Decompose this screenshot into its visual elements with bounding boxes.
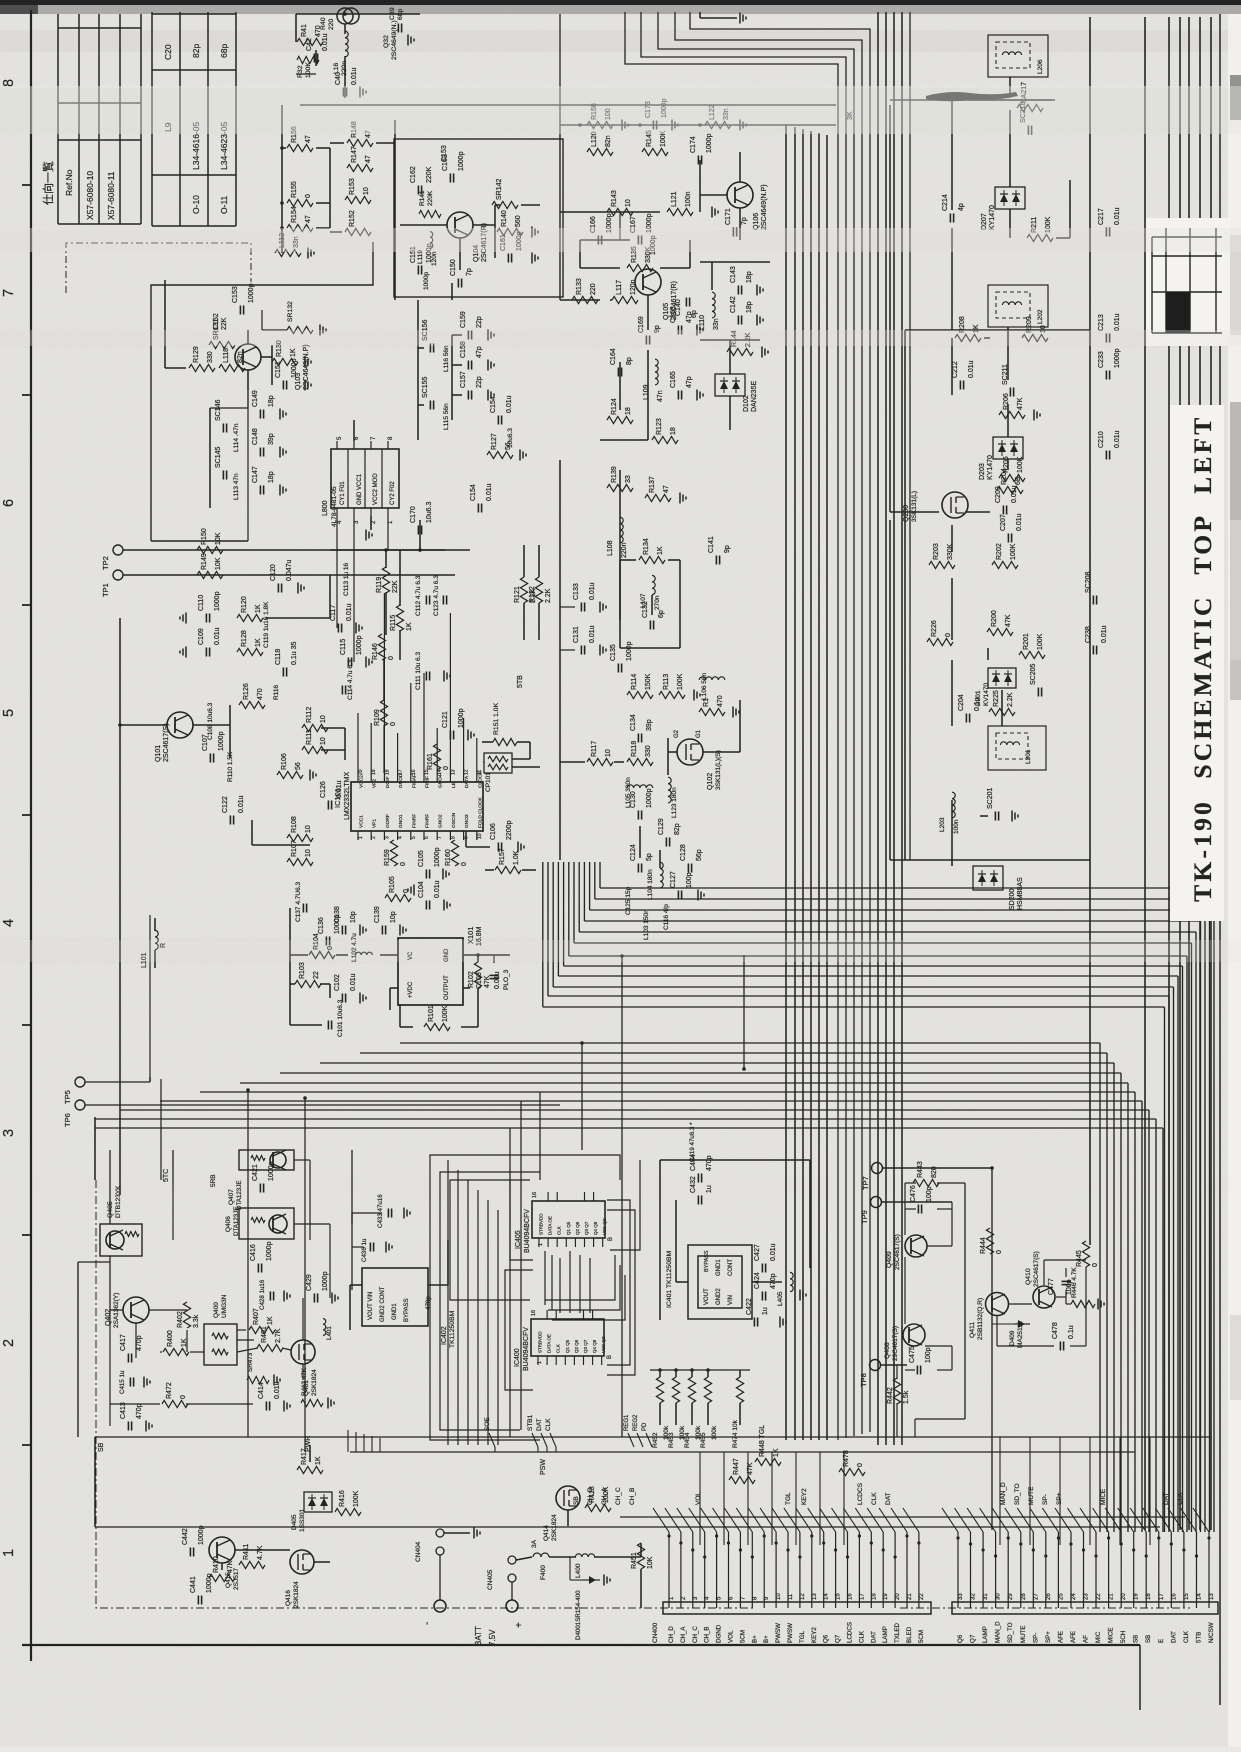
label PSW <box>540 1459 547 1475</box>
svg-text:1000p: 1000p <box>1114 348 1121 368</box>
svg-text:L116 56n: L116 56n <box>443 345 450 372</box>
svg-text:KY1470: KY1470 <box>989 205 996 230</box>
parts variant table grid <box>152 12 236 226</box>
svg-text:1000p: 1000p <box>626 641 633 661</box>
capacitor C171 7p <box>725 208 748 236</box>
svg-text:DTB123YK: DTB123YK <box>115 1185 122 1218</box>
capacitor C214 4p <box>942 194 965 222</box>
resistor R154 47 <box>287 206 313 231</box>
svg-text:PWSW: PWSW <box>787 1623 794 1643</box>
capacitor C422 1u <box>746 1298 769 1326</box>
svg-text:G2: G2 <box>674 729 680 738</box>
svg-text:R106: R106 <box>281 753 288 770</box>
svg-text:100n: 100n <box>685 191 692 207</box>
svg-text:DATA OE: DATA OE <box>547 1334 552 1353</box>
svg-text:C157: C157 <box>460 371 467 388</box>
bus nested corner wires left <box>625 12 870 1440</box>
svg-text:1K: 1K <box>773 1448 780 1457</box>
svg-text:R152: R152 <box>349 210 356 227</box>
svg-text:R226: R226 <box>931 620 938 637</box>
svg-text:C103: C103 <box>476 972 483 989</box>
wire c433 c436 <box>352 1194 410 1290</box>
svg-text:C442: C442 <box>182 1528 189 1545</box>
ground L121 <box>712 207 718 218</box>
svg-text:1: 1 <box>358 836 364 839</box>
transistor Q410 2SC4617(S) <box>1025 1251 1055 1308</box>
svg-text:R127: R127 <box>491 433 498 450</box>
capacitor C476 100p <box>910 1185 933 1213</box>
capacitor C120 0.047u <box>270 559 293 592</box>
svg-text:100K: 100K <box>1010 543 1017 560</box>
svg-text:IC400: IC400 <box>514 1348 521 1367</box>
svg-text:11: 11 <box>788 1593 794 1600</box>
wire conn row 1517 <box>620 1516 1185 1518</box>
resistor R143 10 <box>607 190 633 215</box>
svg-text:470: 470 <box>717 695 724 707</box>
svg-text:0.01u: 0.01u <box>1114 313 1121 331</box>
resistor R134 1K <box>639 538 665 563</box>
svg-text:OSCIN: OSCIN <box>451 812 457 828</box>
coil L109 47n <box>643 359 664 402</box>
svg-text:KV1470: KV1470 <box>983 682 990 706</box>
label 1000p-c151 <box>423 272 430 290</box>
svg-text:R455: R455 <box>700 1432 707 1448</box>
coil L400 <box>575 1554 595 1578</box>
capacitor C143 18p <box>730 266 753 294</box>
svg-text:DOIF: DOIF <box>385 776 391 788</box>
wire feed row <box>300 14 836 105</box>
table text L34-4616-05 <box>191 122 201 170</box>
coil L16 220n <box>333 31 348 76</box>
resistor R111 10 <box>302 729 328 753</box>
diode D405 1SS301 <box>291 1492 332 1532</box>
svg-text:C415 1u: C415 1u <box>119 1370 126 1394</box>
svg-text:Q400: Q400 <box>213 1302 220 1318</box>
svg-text:DTA123JE: DTA123JE <box>236 1181 243 1210</box>
svg-text:SP-: SP- <box>1032 1633 1039 1643</box>
resistor R117 10 <box>587 741 613 766</box>
svg-text:Q101: Q101 <box>155 745 162 762</box>
svg-text:C134: C134 <box>630 714 637 731</box>
svg-text:R157: R157 <box>499 848 506 865</box>
svg-text:100p: 100p <box>686 872 693 888</box>
svg-text:1.0K: 1.0K <box>513 850 520 865</box>
resistor bank R452-R455 100k <box>652 1368 718 1448</box>
resistor R103 22 <box>295 962 321 987</box>
svg-text:2.2K: 2.2K <box>1007 692 1014 707</box>
svg-text:Q410: Q410 <box>1025 1268 1032 1285</box>
resistor R135 330K <box>627 246 653 271</box>
wire q103 <box>165 280 272 390</box>
svg-text:47n: 47n <box>657 390 664 402</box>
svg-text:C212: C212 <box>952 361 959 378</box>
svg-text:R105: R105 <box>389 876 396 893</box>
svg-text:1000p: 1000p <box>266 1241 273 1261</box>
svg-text:C39: C39 <box>389 7 396 20</box>
svg-text:C422: C422 <box>746 1298 753 1315</box>
svg-text:C118: C118 <box>275 649 282 665</box>
svg-text:R150: R150 <box>201 528 208 545</box>
svg-text:R203: R203 <box>933 543 940 560</box>
svg-text:R400: R400 <box>167 1330 174 1347</box>
svg-text:VSS QS: VSS QS <box>601 1336 606 1353</box>
coil L101 <box>141 918 167 968</box>
svg-text:SC205: SC205 <box>1030 663 1037 685</box>
svg-text:Q416: Q416 <box>285 1590 292 1606</box>
svg-text:18p: 18p <box>268 471 275 483</box>
capacitor C134 39p <box>630 714 653 742</box>
svg-text:2SC4649(N.P): 2SC4649(N.P) <box>303 344 310 390</box>
svg-text:30: 30 <box>996 1593 1002 1600</box>
ground R106 <box>310 770 316 781</box>
svg-text:MICE: MICE <box>1100 1488 1107 1505</box>
svg-text:R161: R161 <box>427 753 434 770</box>
capacitor C42 0.01u <box>306 33 329 62</box>
svg-text:SB: SB <box>98 1442 105 1452</box>
svg-text:C101 10u6.3: C101 10u6.3 <box>337 999 344 1037</box>
svg-text:C164: C164 <box>610 348 617 365</box>
connector CN404 <box>415 1528 480 1601</box>
svg-text:Ref.No: Ref.No <box>64 169 74 196</box>
wire bus to shift registers <box>448 1160 498 1445</box>
svg-text:R445: R445 <box>1076 1250 1083 1267</box>
svg-text:1000p: 1000p <box>218 731 225 751</box>
ground C105 <box>443 869 449 880</box>
ground C115 <box>366 657 372 668</box>
capacitor C174 1000p <box>690 133 713 164</box>
svg-text:VOL: VOL <box>728 1630 735 1643</box>
test point TP5 <box>63 1077 150 1104</box>
capacitor C141 9p <box>708 536 731 564</box>
ground C168 <box>697 325 703 336</box>
wire pll mid <box>266 520 445 773</box>
svg-text:CLK: CLK <box>1183 1630 1190 1643</box>
svg-text:1: 1 <box>1 1549 17 1557</box>
svg-text:C427: C427 <box>754 1244 761 1261</box>
svg-text:10: 10 <box>305 849 312 857</box>
svg-text:5TB: 5TB <box>517 675 524 688</box>
label C125 15p <box>625 886 632 915</box>
label C116 47p <box>663 904 670 930</box>
capacitor C103 0.01u <box>476 971 501 989</box>
svg-text:C170: C170 <box>410 506 417 523</box>
svg-text:R126: R126 <box>243 683 250 700</box>
svg-text:C111 10u 6.3: C111 10u 6.3 <box>415 652 422 690</box>
svg-text:仕向一覧: 仕向一覧 <box>41 161 55 205</box>
transistor Q411 2SB1132(Q.R) <box>969 1293 1009 1341</box>
coil L401 <box>323 1319 333 1340</box>
svg-text:VCC2 MOD: VCC2 MOD <box>373 473 379 505</box>
connector CN400 pins 33-13 <box>952 1532 1218 1643</box>
coil L106 56n <box>699 673 725 700</box>
svg-text:SB: SB <box>1133 1635 1140 1643</box>
svg-text:56: 56 <box>295 762 302 770</box>
svg-text:R160: R160 <box>445 849 452 866</box>
svg-text:R1: R1 <box>703 698 710 707</box>
svg-text:31: 31 <box>983 1593 989 1600</box>
wire ic402 <box>350 1240 448 1330</box>
capacitor C211 <box>1002 364 1014 396</box>
svg-text:470p: 470p <box>770 1273 777 1289</box>
scan fade band 1 <box>0 86 1241 134</box>
svg-text:TGL: TGL <box>785 1492 792 1505</box>
svg-text:1000p: 1000p <box>434 847 441 867</box>
ground C111 <box>444 671 450 682</box>
svg-text:L113 47n: L113 47n <box>233 473 240 500</box>
svg-text:O-11: O-11 <box>219 195 229 214</box>
svg-text:C123 4.7u 6.3: C123 4.7u 6.3 <box>433 575 440 616</box>
svg-text:C117: C117 <box>330 605 337 621</box>
svg-text:L106 56n: L106 56n <box>701 673 708 700</box>
svg-text:100n: 100n <box>953 819 960 834</box>
ground R137 <box>680 493 686 504</box>
svg-text:R447: R447 <box>733 1458 740 1475</box>
svg-text:L401: L401 <box>326 1326 333 1340</box>
capacitor C170 10u6.3 <box>410 501 433 534</box>
svg-text:R41: R41 <box>301 24 308 37</box>
wire conn row 1527 <box>95 1526 1160 1528</box>
svg-text:17: 17 <box>398 769 404 775</box>
ground C127 <box>698 890 704 901</box>
svg-text:IC401 TK11250BM: IC401 TK11250BM <box>666 1250 673 1308</box>
capacitor C146 47n <box>215 399 227 432</box>
svg-text:-: - <box>422 1622 433 1625</box>
svg-text:CY1 F01: CY1 F01 <box>340 481 346 505</box>
resistor R101 100K <box>424 1005 450 1030</box>
svg-text:9p: 9p <box>724 545 731 553</box>
svg-text:Q402: Q402 <box>105 1309 112 1326</box>
svg-text:220K: 220K <box>427 190 434 206</box>
svg-text:R448 TGL: R448 TGL <box>759 1425 766 1457</box>
label C153b <box>441 145 448 162</box>
svg-text:24: 24 <box>1071 1593 1077 1600</box>
scan fade band 4 <box>0 940 1241 962</box>
svg-text:15: 15 <box>836 1593 842 1600</box>
svg-text:Q106: Q106 <box>753 213 760 230</box>
svg-text:1000p: 1000p <box>356 635 363 655</box>
svg-text:L117: L117 <box>616 280 623 295</box>
resistor R140 560 <box>497 210 523 235</box>
svg-text:150K: 150K <box>645 673 652 690</box>
svg-text:47K: 47K <box>1017 397 1024 410</box>
label L116 56n <box>443 345 450 372</box>
svg-text:L405: L405 <box>777 1291 784 1306</box>
svg-text:SC201: SC201 <box>987 787 994 809</box>
svg-text:R411: R411 <box>243 1544 250 1560</box>
svg-text:TXLED: TXLED <box>894 1623 901 1643</box>
svg-text:R474 10k: R474 10k <box>732 1419 739 1448</box>
wire rf enclosure right <box>890 100 1090 860</box>
wire right vert 890b <box>889 520 891 860</box>
wire c171 <box>700 262 770 290</box>
transistor Q406 DTA123JE <box>225 1207 294 1239</box>
svg-text:0.01u: 0.01u <box>1114 207 1121 225</box>
svg-text:22K: 22K <box>221 317 228 330</box>
transistor Q402 2SA1362(Y) <box>105 1293 149 1328</box>
capacitor C441 1000p <box>190 1573 213 1604</box>
svg-text:C135: C135 <box>610 644 617 661</box>
resistor R417 1K <box>297 1448 323 1473</box>
svg-text:C154: C154 <box>490 396 497 413</box>
svg-text:29C4617(S): 29C4617(S) <box>892 1326 899 1361</box>
ground C149 <box>280 409 286 420</box>
svg-text:10: 10 <box>305 825 312 833</box>
transistor Q105 2SC4617(R) <box>635 269 678 320</box>
svg-text:2.7K: 2.7K <box>275 1328 282 1343</box>
svg-text:1000p: 1000p <box>291 358 298 378</box>
svg-text:270n: 270n <box>654 595 661 610</box>
svg-text:F400: F400 <box>540 1565 547 1580</box>
svg-text:OORF: OORF <box>385 814 391 828</box>
resistor R226 0 <box>927 620 953 645</box>
resistor R201 100K <box>1019 633 1045 658</box>
svg-text:3SK131(L): 3SK131(L) <box>911 491 918 522</box>
svg-text:VP1: VP1 <box>372 819 378 828</box>
svg-text:B+: B+ <box>763 1635 770 1643</box>
svg-text:82p: 82p <box>674 823 681 835</box>
capacitor C429 1000p <box>306 1271 329 1302</box>
svg-text:C105: C105 <box>418 850 425 867</box>
svg-text:C207: C207 <box>1000 514 1007 531</box>
svg-text:7: 7 <box>437 836 443 839</box>
svg-text:10: 10 <box>320 715 327 723</box>
svg-text:G1: G1 <box>696 729 702 738</box>
svg-text:5: 5 <box>1 709 17 717</box>
svg-text:0.01u: 0.01u <box>214 627 221 645</box>
labels signal names group2 <box>1000 1482 1184 1505</box>
svg-text:SR473: SR473 <box>247 1352 254 1372</box>
svg-text:R204: R204 <box>1001 468 1008 485</box>
svg-text:AFE: AFE <box>1070 1631 1077 1643</box>
resistor R443 820 <box>913 1161 939 1186</box>
svg-text:2SK1824: 2SK1824 <box>293 1581 300 1608</box>
svg-text:0: 0 <box>390 722 397 726</box>
svg-text:R146: R146 <box>372 643 379 660</box>
svg-text:C153: C153 <box>232 286 239 303</box>
ground R158 <box>622 120 628 131</box>
capacitor C165 47p <box>670 371 693 399</box>
svg-text:R444: R444 <box>980 1237 987 1254</box>
resistor R202 100K <box>992 543 1018 568</box>
wire crosser 622 <box>620 954 624 1437</box>
svg-text:18p: 18p <box>746 301 753 313</box>
svg-text:IC101: IC101 <box>333 788 342 808</box>
wire q105 <box>560 295 648 330</box>
wire power entry <box>95 1437 641 1608</box>
svg-text:R442: R442 <box>887 1387 894 1404</box>
wire bus560 upper <box>559 105 561 300</box>
svg-text:C143: C143 <box>730 266 737 283</box>
svg-text:16: 16 <box>532 1192 538 1198</box>
inductor L120 82n <box>587 131 613 155</box>
svg-text:0: 0 <box>403 889 410 893</box>
wire row a <box>560 123 836 127</box>
label shikou-ichiran <box>41 161 55 205</box>
svg-text:0.01u: 0.01u <box>350 973 357 991</box>
svg-text:22: 22 <box>1096 1593 1102 1600</box>
resistor R155 0 <box>287 181 313 206</box>
shield box L206 <box>988 35 1048 77</box>
coil L203 100n <box>939 792 960 834</box>
resistor SR473 <box>247 1352 280 1385</box>
capacitor C209 0.01u <box>995 485 1018 514</box>
capacitor C102 0.01u <box>334 973 357 1002</box>
svg-text:Q4 Q8: Q4 Q8 <box>593 1221 598 1235</box>
connector CN400 pins 1-22 <box>652 1532 931 1643</box>
svg-text:18p: 18p <box>746 271 753 283</box>
svg-text:DAT: DAT <box>1170 1631 1177 1643</box>
svg-text:0: 0 <box>461 862 468 866</box>
svg-text:3: 3 <box>384 836 390 839</box>
svg-text:X57-6080-11: X57-6080-11 <box>106 171 116 220</box>
svg-text:Q406: Q406 <box>225 1216 232 1232</box>
resistor R108 10 <box>287 816 313 841</box>
ground R130 <box>305 357 311 368</box>
svg-text:DAT: DAT <box>536 1418 543 1431</box>
svg-text:C159: C159 <box>460 311 467 328</box>
svg-text:C121: C121 <box>442 711 449 728</box>
svg-text:R401: R401 <box>261 1326 268 1343</box>
svg-text:39p: 39p <box>268 433 275 445</box>
svg-text:BU4094BCFV: BU4094BCFV <box>524 1209 531 1253</box>
bus vertical group right <box>1090 17 1211 1530</box>
svg-text:6: 6 <box>424 836 430 839</box>
svg-text:220: 220 <box>590 283 597 295</box>
svg-text:1K: 1K <box>406 622 413 631</box>
svg-text:330K: 330K <box>947 543 954 560</box>
resistor R153 10 <box>345 178 371 203</box>
svg-text:R119: R119 <box>376 577 383 593</box>
svg-text:SD_TO: SD_TO <box>1007 1622 1014 1643</box>
svg-text:PWSW: PWSW <box>775 1623 782 1643</box>
svg-text:R454: R454 <box>684 1432 691 1448</box>
svg-text:C109: C109 <box>198 628 205 645</box>
svg-text:C131: C131 <box>573 626 580 643</box>
svg-text:R141: R141 <box>419 190 426 206</box>
diode D102 DAN235E <box>715 374 758 412</box>
svg-text:MAN_D: MAN_D <box>995 1621 1002 1643</box>
svg-text:L118: L118 <box>223 348 230 363</box>
connector CN405 <box>487 1556 516 1600</box>
resistor R122 2.2K <box>529 577 552 603</box>
label R141 220K <box>419 190 441 218</box>
ground R144 <box>762 347 768 358</box>
resistor R145 100K <box>642 130 668 155</box>
capacitor C132 6p <box>642 601 665 629</box>
ground L112 <box>308 248 314 259</box>
ground R113 <box>694 690 700 701</box>
svg-text:VSS QS: VSS QS <box>602 1218 607 1235</box>
capacitor C164 8p <box>610 348 633 376</box>
svg-text:470p: 470p <box>425 1296 432 1310</box>
capacitor C413 470p <box>120 1402 143 1430</box>
svg-text:33: 33 <box>958 1593 964 1600</box>
varactor top <box>337 8 359 24</box>
wire ic101 right <box>466 742 540 870</box>
wire left col <box>280 105 330 253</box>
svg-text:33n: 33n <box>713 318 720 330</box>
svg-text:C153: C153 <box>441 145 448 162</box>
svg-text:SC155: SC155 <box>422 376 429 398</box>
capacitor C233 1000p <box>1098 348 1121 379</box>
svg-text:0.01u: 0.01u <box>589 582 596 600</box>
ground C165 <box>697 390 703 401</box>
svg-text:B: B <box>607 1355 613 1359</box>
svg-text:1: 1 <box>538 1243 544 1246</box>
svg-text:11: 11 <box>477 770 483 775</box>
svg-text:C147: C147 <box>252 466 259 483</box>
svg-text:0: 0 <box>857 1463 864 1467</box>
